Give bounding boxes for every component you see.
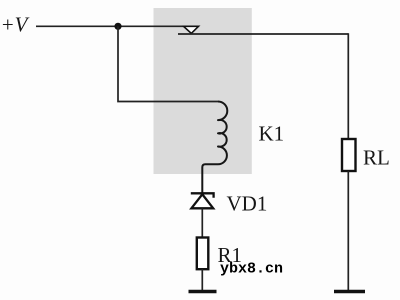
node: junction dot on +V rail (114, 23, 121, 30)
wire: RL to right ground (347, 171, 349, 291)
svg-text:ybx8.cn: ybx8.cn (220, 261, 283, 278)
wire: +V supply rail to contact (36, 25, 199, 27)
coil K1 (inductor) (202, 102, 227, 194)
relay body K1 (gray box) (154, 8, 252, 174)
ground (left) (189, 290, 217, 293)
wire: right branch down to RL (347, 33, 349, 139)
wire: diode anode to R1 (201, 208, 203, 238)
svg-text:+V: +V (1, 13, 30, 37)
diode VD1: cathode bar with right tick (191, 193, 214, 198)
svg-text:K1: K1 (259, 122, 285, 146)
wire: junction down then right to coil (118, 26, 218, 101)
svg-text:RL: RL (363, 146, 390, 170)
relay contact K1 (open triangle) (184, 26, 199, 33)
ground (right) (334, 290, 365, 293)
diode VD1: triangle (anode below, pointing up) (191, 194, 213, 208)
svg-text:VD1: VD1 (227, 192, 268, 216)
wire: R1 to left ground (201, 269, 203, 290)
resistor RL (342, 139, 356, 171)
resistor R1 (197, 238, 209, 270)
wire: contact output to top-right corner (178, 33, 348, 35)
